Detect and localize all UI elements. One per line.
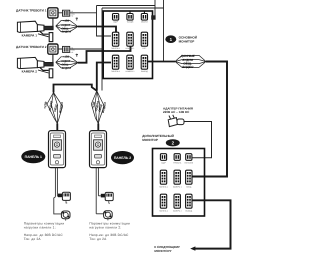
svg-text:ПИТАНИЕ: ПИТАНИЕ	[184, 162, 193, 164]
text: parameters panel 2	[89, 221, 130, 241]
svg-text:нагрузки панели 2:: нагрузки панели 2:	[89, 226, 121, 230]
svg-text:НО: НО	[71, 51, 74, 53]
svg-text:ТРЕВОГА: ТРЕВОГА	[173, 162, 181, 164]
svg-text:ПАНЕЛЬ 2: ПАНЕЛЬ 2	[111, 70, 120, 72]
additional monitor connectors row1	[160, 154, 166, 161]
side jack on monitor right edge	[151, 15, 155, 19]
svg-text:ПАНЕЛЬ 2: ПАНЕЛЬ 2	[159, 210, 168, 212]
svg-text:ВЫХОД: ВЫХОД	[186, 210, 193, 212]
svg-text:ДАТЧИК ТРЕВОГИ 1: ДАТЧИК ТРЕВОГИ 1	[16, 9, 47, 13]
badge: ПАНЕЛЬ 2	[111, 151, 134, 164]
additional monitor U2 box	[153, 149, 205, 217]
camera CAM1 body	[17, 21, 53, 41]
text: parameters panel 1	[24, 221, 65, 241]
svg-text:ВИДЕО: ВИДЕО	[62, 30, 71, 33]
lock L1 (electric strike)	[58, 192, 70, 203]
svg-text:НЗ: НЗ	[71, 47, 73, 49]
wire: additional monitor output to next monitor	[192, 200, 231, 248]
wire: panel2 riser from monitor row3	[97, 63, 111, 91]
svg-text:МОНИТОР: МОНИТОР	[179, 39, 195, 43]
svg-text:НО: НО	[71, 15, 74, 17]
wire: monitor output stub to bundle	[148, 61, 175, 63]
arrowhead to next monitor	[190, 246, 195, 250]
badge: ПАНЕЛЬ 1	[21, 150, 45, 163]
camera 1 wire fan with labels	[56, 19, 78, 33]
svg-text:АУДИО: АУДИО	[61, 60, 70, 63]
additional monitor connectors row3	[160, 194, 166, 208]
bell B2	[104, 211, 113, 221]
svg-text:ОБЩ.: ОБЩ.	[61, 27, 68, 30]
svg-text:нагрузки панели 1:: нагрузки панели 1:	[24, 226, 56, 230]
wire: fan into panel 2 top	[97, 124, 99, 132]
svg-text:Напр-ие: до 30В DC/AC: Напр-ие: до 30В DC/AC	[24, 233, 64, 237]
wire: adapter cable to additional monitor power	[184, 122, 212, 158]
svg-text:Напр-ие: до 30В DC/AC: Напр-ие: до 30В DC/AC	[89, 233, 129, 237]
wire W1: camera 1 to monitor row2-c1	[78, 27, 116, 33]
marker 1: main monitor label	[165, 35, 197, 43]
marker 2: additional monitor	[166, 139, 180, 146]
svg-text:ПАНЕЛЬ 1: ПАНЕЛЬ 1	[159, 186, 168, 188]
wires: panel1 bottom pair	[54, 168, 56, 197]
wire W3: panels bus to monitor row3 input	[54, 85, 97, 93]
svg-text:220В AC – 12В DC: 220В AC – 12В DC	[163, 110, 190, 114]
svg-text:КАМЕРА 1: КАМЕРА 1	[126, 47, 135, 49]
svg-text:ОБЩ.: ОБЩ.	[183, 62, 192, 65]
sensor S2 box	[48, 44, 58, 54]
wire: drop from top edge to monitor side jack	[154, 0, 156, 18]
adapter PS1 plug icon	[168, 115, 184, 127]
wire: sensor1 riser and entry to monitor row2	[97, 6, 112, 37]
panel P1 (door station)	[49, 131, 66, 168]
wire: sensor1 output to riser	[58, 12, 97, 14]
svg-text:КАМЕРА 2: КАМЕРА 2	[173, 210, 182, 212]
svg-text:МОНИТОРУ: МОНИТОРУ	[154, 249, 171, 253]
bundle fan: ДАННЫЕ/АУДИО/ОБЩ./ВИДЕО	[175, 54, 206, 68]
svg-text:+12В: +12В	[63, 55, 69, 58]
wire: sensor2 stub down	[52, 54, 54, 63]
wire: top bus line 1 (sensor 1 to main monitor)	[97, 5, 156, 7]
svg-text:ВХОД: ВХОД	[186, 186, 191, 188]
svg-text:ЗВОН.В: ЗВОН.В	[141, 21, 148, 23]
svg-text:УДАР: УДАР	[161, 162, 166, 164]
svg-text:ОРГ.: ОРГ.	[142, 47, 146, 49]
panel 2 wire fan with rotated labels	[91, 91, 107, 124]
svg-text:ПАНЕЛЬ 2: ПАНЕЛЬ 2	[114, 156, 131, 160]
svg-text:МОНИТОР: МОНИТОР	[142, 138, 158, 142]
sensor S1 box	[48, 8, 58, 18]
svg-text:ДАТЧИК ТРЕВОГИ 2: ДАТЧИК ТРЕВОГИ 2	[16, 45, 47, 49]
main monitor connectors row2	[112, 32, 118, 46]
wire: panel2 load bracket	[96, 213, 103, 215]
wires: panel2 bottom pair	[95, 168, 97, 214]
panel P2 (door station)	[90, 131, 107, 168]
svg-text:НЗ: НЗ	[71, 11, 73, 13]
svg-text:ОБЩ.: ОБЩ.	[61, 63, 68, 66]
svg-text:КАМЕРА 2: КАМЕРА 2	[126, 70, 135, 72]
svg-text:ПАНЕЛЬ 1: ПАНЕЛЬ 1	[25, 155, 42, 159]
svg-text:ВЫХОД: ВЫХОД	[141, 70, 148, 72]
svg-text:АУДИО: АУДИО	[61, 24, 70, 27]
wire: panel1 load bracket	[54, 197, 62, 214]
svg-text:ВИДЕО: ВИДЕО	[62, 66, 71, 69]
wire: top bus line 2 (sensor 2 run)	[102, 7, 164, 9]
bell B1	[61, 211, 70, 221]
svg-text:ДАННЫЕ: ДАННЫЕ	[180, 54, 195, 58]
main monitor connectors row1	[113, 13, 119, 20]
svg-text:КАМЕРА 1: КАМЕРА 1	[173, 186, 182, 188]
terminal block NO/NC of sensor 1	[63, 10, 79, 20]
svg-text:ВИДЕО: ВИДЕО	[182, 65, 193, 69]
svg-text:ОБЩ: ОБЩ	[71, 49, 75, 51]
wire W2: camera 2 to monitor row2-c2	[78, 46, 131, 63]
camera 1 bracket	[40, 31, 49, 34]
camera CAM2 body	[17, 57, 53, 77]
wire: bundle to additional monitor row2 input	[192, 62, 227, 177]
svg-text:+12В: +12В	[63, 19, 69, 22]
main monitor connectors row3	[112, 55, 118, 69]
svg-text:АУДИО: АУДИО	[182, 58, 193, 62]
svg-text:Ток: до 2А: Ток: до 2А	[24, 237, 42, 241]
wire: long thin riser x=102	[101, 8, 103, 91]
additional monitor connectors row2	[160, 170, 166, 184]
main monitor U1 box	[103, 11, 152, 79]
wire: stub top edge to row1-c2	[129, 11, 131, 14]
wire: sensor1 stub down to camera bracket	[52, 18, 54, 27]
wire: sensor2 output to riser	[58, 48, 102, 50]
wire: drop from top edge to video bundle junction	[163, 0, 165, 62]
lock L2 (electric strike)	[101, 192, 113, 203]
panel 1 wire fan with rotated labels	[43, 93, 64, 124]
svg-text:ОБЩ: ОБЩ	[71, 13, 75, 15]
svg-text:КАМЕРА 2: КАМЕРА 2	[22, 70, 38, 74]
svg-text:ТелефВ: ТелефВ	[127, 21, 134, 23]
camera 2 bracket	[40, 68, 49, 71]
svg-text:КАМЕРА 1: КАМЕРА 1	[22, 33, 38, 37]
terminal block NO/NC of sensor 2	[63, 46, 79, 56]
svg-text:ПАНЕЛЬ 1: ПАНЕЛЬ 1	[111, 47, 120, 49]
svg-text:УДАР: УДАР	[113, 21, 118, 23]
svg-text:Ток: до 2А: Ток: до 2А	[89, 237, 107, 241]
camera 2 wire fan with labels	[56, 55, 78, 69]
wire: fan into panel 1 top	[56, 124, 58, 132]
wire: stub top edge to row1-c3	[143, 11, 145, 14]
